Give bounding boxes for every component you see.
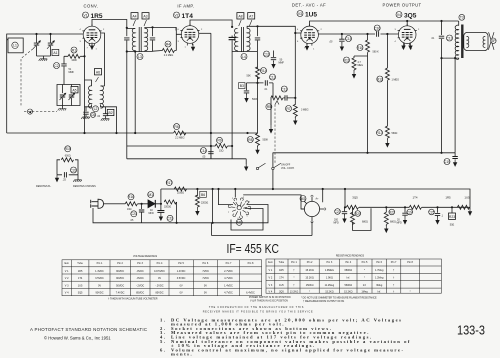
ref C25 circle <box>428 209 434 215</box>
svg-text:VOL. CONT.: VOL. CONT. <box>281 167 295 170</box>
ref R21 circle <box>389 209 395 215</box>
node junction bus4 output riser <box>440 152 442 154</box>
svg-text:DENOTES B−: DENOTES B− <box>36 185 52 188</box>
speaker SP secondary loops <box>467 36 469 47</box>
svg-text:MEG: MEG <box>358 64 364 67</box>
svg-text:Pin 3: Pin 3 <box>137 262 143 265</box>
bus B+ top horizontal <box>161 189 470 207</box>
svg-text:1.9KΩ: 1.9KΩ <box>326 277 333 280</box>
svg-text:DENOTES CHASSIS: DENOTES CHASSIS <box>73 185 96 188</box>
svg-text:R20: R20 <box>355 212 361 216</box>
ref C14 circle <box>200 148 206 154</box>
svg-text:C14: C14 <box>200 149 206 153</box>
ref R13 circle <box>376 130 382 136</box>
ref R14 circle <box>260 68 266 74</box>
svg-text:Inf.: Inf. <box>363 284 367 287</box>
svg-text:1.4VDC: 1.4VDC <box>177 270 186 273</box>
svg-text:MFD: MFD <box>397 222 402 225</box>
capacitor C2 51MMF <box>61 56 66 70</box>
B- arrow below R13 <box>385 140 389 148</box>
svg-text:RECEIVER MAKES IT POSSIBLE TO: RECEIVER MAKES IT POSSIBLE TO BRING YOU … <box>203 310 314 313</box>
svg-text:R10: R10 <box>357 46 363 50</box>
wire T1 tops <box>127 28 176 31</box>
wire socket loop outer <box>213 189 268 223</box>
svg-text:Pin 1: Pin 1 <box>97 262 103 265</box>
ref V1 circle <box>83 12 89 18</box>
label V1 pin numbers <box>80 29 106 51</box>
wire osc padder box <box>57 71 80 106</box>
transformer T1 core <box>139 27 141 52</box>
B- arrow below R18 <box>195 208 199 216</box>
svg-text:V 2: V 2 <box>269 277 273 280</box>
legend network loop <box>57 158 78 178</box>
svg-text:A3: A3 <box>143 14 147 18</box>
svg-text:R15: R15 <box>65 147 71 151</box>
svg-text:133-3: 133-3 <box>457 323 485 338</box>
ref C24 circle <box>407 209 413 215</box>
wire socket feed line <box>243 195 304 209</box>
wire fil end drop <box>469 207 471 208</box>
wire R9 right <box>228 145 233 147</box>
svg-text:2.2 MEG: 2.2 MEG <box>175 137 185 140</box>
svg-text:*: * <box>410 290 411 293</box>
svg-text:6.4VDC: 6.4VDC <box>246 292 255 295</box>
loop antenna box <box>8 38 23 53</box>
ground chassis osc box <box>58 106 67 111</box>
svg-text:13.2KΩ: 13.2KΩ <box>290 290 299 293</box>
svg-text:R12: R12 <box>377 77 383 81</box>
node junction plate 560K <box>366 33 368 35</box>
resistor R22 fil 1T4 <box>409 205 421 209</box>
ref R1 circle <box>71 47 77 53</box>
wire left vertical to B- bus <box>6 40 8 133</box>
svg-text:1.7Meg: 1.7Meg <box>375 269 384 272</box>
resistor R20 680 ohm shunt <box>346 207 371 230</box>
node junction T3 bottom tap <box>440 57 442 59</box>
svg-text:1R5: 1R5 <box>78 270 83 273</box>
capacitor C8 T1 secondary <box>150 29 155 52</box>
wire T2 right bottom down <box>257 52 259 134</box>
node junction fil r23 <box>451 206 453 208</box>
wire output return riser <box>454 58 456 153</box>
bus B- horizontal main <box>7 132 258 134</box>
wire osc bottom rail <box>85 105 117 134</box>
ref R20 circle <box>355 211 361 217</box>
ref V4 circle <box>396 12 402 18</box>
ref M3 circle <box>300 196 306 202</box>
capacitor C5 .1 <box>81 107 90 119</box>
resistor R18 2200 ohm <box>195 189 199 208</box>
wire R4 ends <box>153 27 182 51</box>
svg-text:Item: Item <box>268 261 273 264</box>
svg-text:C24: C24 <box>407 210 413 214</box>
capacitor C11 50MMF <box>271 51 276 69</box>
capacitor C23 200MFD <box>342 207 347 223</box>
capacitor C21 .05 line <box>139 204 144 223</box>
wire V2 screen feed <box>199 32 211 34</box>
resistor R14 50K det load <box>256 67 260 79</box>
ref C17 circle <box>446 35 452 41</box>
capacitor C12 .01 <box>265 80 267 85</box>
wire between R12 R13 <box>386 80 388 126</box>
label V2 pin numbers <box>178 29 204 50</box>
svg-text:L4: L4 <box>242 55 246 59</box>
svg-text:*: * <box>294 277 295 280</box>
svg-text:Pin 5: Pin 5 <box>362 261 368 264</box>
svg-text:V3: V3 <box>298 12 302 16</box>
svg-text:T3: T3 <box>460 16 464 20</box>
transformer T1 secondary <box>145 28 148 50</box>
svg-text:A5: A5 <box>72 88 76 92</box>
wire filament string <box>345 206 470 208</box>
socket M2 bottom view <box>228 198 250 219</box>
svg-text:4.7VDC: 4.7VDC <box>224 292 233 295</box>
svg-text:3.5VDC: 3.5VDC <box>95 277 104 280</box>
resistor R12 1 MEG <box>385 68 389 80</box>
svg-text:MMF: MMF <box>279 62 285 65</box>
transformer T2 primary <box>235 28 238 50</box>
variable capacitor C3 osc <box>60 85 67 106</box>
svg-text:150KΩ: 150KΩ <box>306 284 314 287</box>
svg-text:15.2KΩ: 15.2KΩ <box>344 290 353 293</box>
svg-text:90VDC: 90VDC <box>95 292 103 295</box>
svg-text:RESISTANCE READINGS: RESISTANCE READINGS <box>336 255 365 258</box>
svg-text:50Ω: 50Ω <box>450 224 455 227</box>
node junction line cap <box>141 203 143 205</box>
ref B3 box <box>239 83 245 89</box>
svg-text:R8: R8 <box>248 138 252 142</box>
svg-text:R23: R23 <box>449 215 455 219</box>
wire R23 stub <box>451 207 453 213</box>
ref L1 circle <box>12 42 18 48</box>
ref A6 box <box>95 69 102 75</box>
svg-text:*: * <box>364 277 365 280</box>
svg-text:1U5: 1U5 <box>279 284 284 287</box>
svg-text:C13: C13 <box>281 87 287 91</box>
resistor R8 500K avc filter <box>256 133 260 145</box>
B- arrow below R7 <box>293 118 297 126</box>
svg-text:3200Ω: 3200Ω <box>164 206 171 209</box>
tube V1 1R5 <box>82 24 101 46</box>
wire bus3 to switch <box>245 159 247 164</box>
svg-text:IF AMP.: IF AMP. <box>177 4 194 9</box>
rectifier M1 selenium <box>148 200 155 208</box>
ref R5 circle <box>266 104 272 110</box>
svg-text:-9VDC: -9VDC <box>136 270 144 273</box>
svg-text:0V: 0V <box>180 284 183 287</box>
table resistance readings <box>266 255 441 294</box>
node junction bus1 T1 <box>134 132 136 134</box>
ref R7 circle <box>286 106 292 112</box>
wire 1meg riser <box>386 34 388 68</box>
svg-text:1R5: 1R5 <box>279 269 284 272</box>
ref A7 box <box>248 13 255 19</box>
node junction b+ rail r18 <box>196 188 198 190</box>
node junction T2 top <box>231 26 233 28</box>
ref A1 box <box>52 49 59 55</box>
svg-text:V 4: V 4 <box>269 290 273 293</box>
resistor R24 fil 1U5 <box>457 205 469 209</box>
ref L3 circle <box>137 54 143 60</box>
ref C19 circle <box>444 159 450 165</box>
wire V1 plate to T1 <box>92 20 127 28</box>
ref R17 circle <box>166 180 172 186</box>
AC plug P1 <box>91 199 113 208</box>
svg-text:1U5: 1U5 <box>464 196 470 200</box>
B- arrow under V2 filament <box>191 44 195 52</box>
svg-text:0V: 0V <box>180 292 183 295</box>
svg-text:2.7VDC: 2.7VDC <box>224 270 233 273</box>
table voltage readings <box>62 255 262 296</box>
B- arrow under V4 filament <box>401 43 405 51</box>
B- arrow legend <box>55 175 59 183</box>
ref C13 circle <box>281 86 287 92</box>
svg-text:7.4VDC: 7.4VDC <box>116 292 125 295</box>
svg-text:R4: R4 <box>166 42 170 46</box>
bus2 screen horizontal <box>127 145 215 147</box>
svg-text:V 1: V 1 <box>65 270 69 273</box>
svg-text:2180Ω: 2180Ω <box>177 192 184 195</box>
transformer T3 core <box>461 25 463 59</box>
svg-text:3Q5: 3Q5 <box>78 292 83 295</box>
wire socket bottom rail <box>212 223 313 236</box>
wire T3 primary bottom <box>442 58 459 59</box>
svg-text:680Ω: 680Ω <box>390 221 396 224</box>
svg-text:V 1: V 1 <box>269 269 273 272</box>
ref C11 circle <box>264 51 270 57</box>
resistor R4 2.2 MEG <box>162 49 174 53</box>
node junction grid 1meg <box>386 33 388 35</box>
svg-text:680KΩ: 680KΩ <box>344 269 352 272</box>
svg-text:V & R TAKEN IN AC-DC POSITION: V & R TAKEN IN AC-DC POSITION <box>250 300 288 303</box>
svg-text:1T4: 1T4 <box>182 13 194 20</box>
ref L2 circle <box>93 106 99 112</box>
ref R12 circle <box>377 76 383 82</box>
svg-text:3Q5: 3Q5 <box>404 13 417 20</box>
svg-text:V 4: V 4 <box>65 292 69 295</box>
wire R13 bottom <box>386 138 388 140</box>
wire dashed mechanical link vol <box>274 105 276 165</box>
node junction bus2 T2 <box>231 145 233 147</box>
svg-text:.7VDC: .7VDC <box>202 270 210 273</box>
legend network R 600 ohm <box>65 146 71 152</box>
svg-text:A8: A8 <box>238 14 242 18</box>
tube V2 1T4 <box>180 24 199 46</box>
svg-text:1.: 1. <box>160 317 167 322</box>
node junction 3200 bottom <box>176 222 178 224</box>
svg-text:90VDC: 90VDC <box>116 277 124 280</box>
node junction return bus <box>454 57 456 59</box>
svg-text:C20: C20 <box>70 168 76 172</box>
ref R23 box <box>449 213 456 219</box>
svg-text:CONV.: CONV. <box>84 4 99 9</box>
ref R9 circle <box>217 137 223 143</box>
potentiometer R5 500K volume <box>271 96 283 100</box>
wire gang dashed link <box>21 49 33 107</box>
svg-text:V 2: V 2 <box>65 277 69 280</box>
svg-text:600Ω: 600Ω <box>65 154 71 157</box>
wire T2 secondary top to V3 grid <box>247 26 301 33</box>
wire socket left vertical <box>219 189 234 205</box>
wire osc coil bottoms <box>91 107 93 110</box>
node junction B+ .01 <box>440 20 442 22</box>
svg-text:0-8.5VDC: 0-8.5VDC <box>154 270 165 273</box>
svg-text:R17: R17 <box>166 181 172 185</box>
wire socket top vertical <box>234 189 236 197</box>
svg-text:A PHOTOFACT STANDARD NOTATI: A PHOTOFACT STANDARD NOTATION SCHEMATIC <box>30 327 147 332</box>
node junction fil r21 <box>385 206 387 208</box>
svg-text:MFD: MFD <box>334 222 339 225</box>
wire pot feed <box>271 83 273 98</box>
wire det chain horizontal <box>247 82 274 84</box>
capacitor C15 .05 <box>339 34 344 51</box>
node junction fil c25 <box>436 206 438 208</box>
node junction fil feed <box>344 188 346 190</box>
ref R18 box <box>200 191 207 197</box>
node junction socket c <box>234 188 236 190</box>
wire A8 adjust arrow <box>239 20 242 26</box>
svg-text:0V: 0V <box>204 292 207 295</box>
ref A5 box <box>71 87 78 93</box>
svg-text:3Q5: 3Q5 <box>279 290 284 293</box>
B- arrow below R8 <box>255 147 259 155</box>
svg-text:Tube: Tube <box>77 262 83 265</box>
svg-text:C22: C22 <box>167 217 173 221</box>
label socket pin numbers <box>228 197 252 220</box>
transformer T1 primary <box>132 28 135 50</box>
oscillator coil L2 right winding <box>101 86 104 108</box>
node junction fil r19 <box>344 206 346 208</box>
svg-text:100K: 100K <box>71 59 77 62</box>
svg-text:V1: V1 <box>83 13 87 17</box>
ref C23 circle <box>334 209 340 215</box>
resistor R11 4.7 MEG <box>352 56 368 79</box>
node junction top bus at tuning cap B <box>49 33 51 35</box>
svg-text:*: * <box>364 269 365 272</box>
svg-text:1.2Meg: 1.2Meg <box>375 277 384 280</box>
svg-text:R9: R9 <box>217 139 221 143</box>
svg-text:85VDC: 85VDC <box>136 292 144 295</box>
capacitor C16 coupling <box>377 31 379 36</box>
ref R6 circle <box>174 124 180 130</box>
wire tuning caps bottom rail <box>37 56 51 59</box>
resistor R1 100K <box>68 54 80 58</box>
svg-text:15.2KΩ: 15.2KΩ <box>305 269 314 272</box>
ground chassis tuning <box>39 59 48 61</box>
svg-text:IF= 455 KC: IF= 455 KC <box>227 242 280 256</box>
svg-text:L2: L2 <box>94 107 98 111</box>
node T1 secondary top <box>151 26 153 28</box>
node junction socket top <box>212 188 214 190</box>
wire V3 plate top B+ line <box>310 21 459 26</box>
oscillator coil L2 left winding <box>89 86 92 108</box>
svg-text:Tube: Tube <box>279 261 285 264</box>
node junction top bus at tuning cap A <box>35 33 37 35</box>
svg-text:1T4: 1T4 <box>413 196 418 200</box>
svg-text:15.2KΩ: 15.2KΩ <box>325 290 334 293</box>
svg-text:DET.- AVC - AF: DET.- AVC - AF <box>292 3 326 8</box>
wire R1 left to C2 <box>64 55 85 57</box>
node junction bus1 osc <box>115 132 117 134</box>
svg-text:C15: C15 <box>345 37 351 41</box>
resistor R13 560 ohm <box>385 126 389 138</box>
svg-text:M1: M1 <box>148 193 153 197</box>
svg-text:1.4VDC: 1.4VDC <box>224 284 233 287</box>
svg-text:15Ω: 15Ω <box>219 150 224 153</box>
wire battery plug links <box>312 189 323 236</box>
svg-text:Pin 7: Pin 7 <box>391 261 397 264</box>
transformer T3 secondary speaker box <box>464 32 488 50</box>
pot wiper arrow <box>275 101 279 105</box>
svg-text:R7: R7 <box>286 107 290 111</box>
svg-text:A7: A7 <box>249 14 253 18</box>
svg-text:C17: C17 <box>446 36 452 40</box>
svg-text:Pin 4: Pin 4 <box>345 261 351 264</box>
B- arrow under V1 filament <box>90 43 94 51</box>
variable capacitor C1B tuning <box>47 34 55 56</box>
ref L4 circle <box>241 54 247 60</box>
node junction grid riser <box>294 97 296 99</box>
svg-text:R6: R6 <box>174 125 178 129</box>
resistor R19 fil 3Q5 <box>346 205 358 209</box>
svg-text:A6: A6 <box>96 70 100 74</box>
node T1 bottom cap <box>126 50 128 52</box>
svg-text:Pin 6: Pin 6 <box>376 261 382 264</box>
node junction socket b <box>217 188 219 190</box>
capacitor C24 fil <box>402 207 407 224</box>
svg-text:50K: 50K <box>247 75 252 78</box>
svg-text:1U5: 1U5 <box>305 12 317 19</box>
wire grid line V1 down <box>84 40 86 134</box>
svg-text:3Q5: 3Q5 <box>352 196 358 200</box>
wire socket mid rail <box>231 209 263 231</box>
svg-text:B2: B2 <box>109 111 113 115</box>
node junction det chain <box>256 82 258 84</box>
svg-text:0V: 0V <box>98 284 101 287</box>
svg-text:3.5VDC: 3.5VDC <box>177 277 186 280</box>
capacitor C17 .01 <box>439 21 444 153</box>
svg-text:L1: L1 <box>13 44 17 48</box>
wire T2 left cap down to bus3 <box>231 52 233 159</box>
ref A3 box <box>142 13 149 19</box>
ref C21 circle <box>131 211 137 217</box>
svg-text:4.7VDC: 4.7VDC <box>224 277 233 280</box>
svg-text:SP: SP <box>491 39 496 43</box>
svg-text:15.2KΩ: 15.2KΩ <box>305 277 314 280</box>
svg-text:C11: C11 <box>264 52 270 56</box>
node junction T2 top right cap <box>256 25 258 27</box>
ref A8 box <box>237 13 244 19</box>
speaker SP voice coil loops <box>483 36 485 47</box>
capacitor C18 det bypass <box>244 83 249 103</box>
capacitor C6 .04 <box>101 107 110 121</box>
ref T3 circle <box>459 14 465 20</box>
svg-text:1Meg: 1Meg <box>361 290 368 293</box>
transformer T2 secondary <box>247 28 250 50</box>
resistor R9 15 ohm <box>215 144 227 148</box>
ref M1 circle <box>148 192 154 198</box>
svg-text:VOLTAGE READINGS: VOLTAGE READINGS <box>133 255 157 258</box>
svg-text:1R5: 1R5 <box>91 13 103 20</box>
resistor R16 16 ohm <box>113 202 162 206</box>
B- arrow fil end <box>468 208 472 216</box>
wire R7 bottom <box>294 117 296 118</box>
svg-text:Item: Item <box>64 262 69 265</box>
svg-text:M3: M3 <box>301 197 306 201</box>
node junction rect out <box>160 203 162 205</box>
svg-text:6.: 6. <box>160 347 167 352</box>
ref C2 circle <box>54 63 60 69</box>
